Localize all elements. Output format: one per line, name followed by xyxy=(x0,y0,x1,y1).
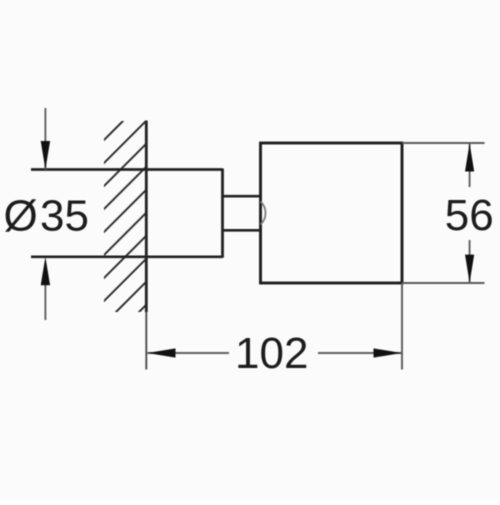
svg-text:35: 35 xyxy=(40,192,89,241)
svg-text:56: 56 xyxy=(445,191,494,240)
svg-text:102: 102 xyxy=(235,329,308,378)
svg-text:Ø: Ø xyxy=(4,192,38,241)
